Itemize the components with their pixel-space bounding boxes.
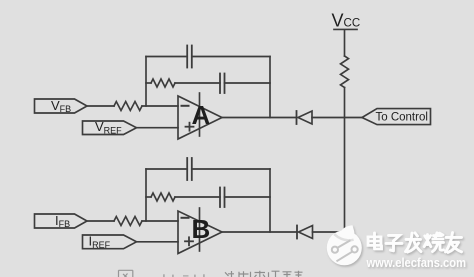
svg-text:B: B — [192, 214, 211, 244]
svg-text:To Control: To Control — [376, 112, 428, 124]
svg-text:www.elecfans.com: www.elecfans.com — [366, 256, 466, 270]
svg-text:A: A — [192, 100, 211, 130]
